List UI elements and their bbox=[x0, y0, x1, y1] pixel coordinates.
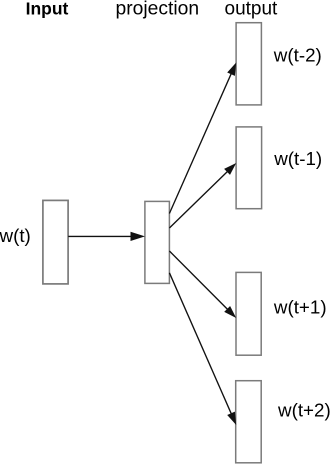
arrow projection to w(t+2) bbox=[169, 273, 236, 425]
svg-text:Input: Input bbox=[26, 0, 69, 19]
svg-text:w(t-1): w(t-1) bbox=[273, 148, 322, 169]
svg-text:w(t+2): w(t+2) bbox=[277, 400, 330, 421]
svg-text:w(t): w(t) bbox=[0, 225, 31, 246]
arrow input to projection bbox=[68, 232, 145, 241]
arrow projection to w(t-2) bbox=[169, 63, 236, 214]
output box w(t-2) bbox=[236, 23, 261, 105]
svg-text:output: output bbox=[225, 0, 279, 20]
output box w(t+2) bbox=[236, 381, 262, 463]
arrow projection to w(t+1) bbox=[169, 251, 236, 318]
svg-text:w(t+1): w(t+1) bbox=[273, 297, 327, 318]
input layer box w(t) bbox=[43, 200, 68, 284]
arrow projection to w(t-1) bbox=[169, 163, 236, 228]
svg-text:projection: projection bbox=[116, 0, 200, 19]
output box w(t+1) bbox=[236, 272, 261, 355]
projection layer box bbox=[145, 201, 170, 283]
svg-text:w(t-2): w(t-2) bbox=[273, 45, 322, 66]
output box w(t-1) bbox=[236, 127, 262, 209]
